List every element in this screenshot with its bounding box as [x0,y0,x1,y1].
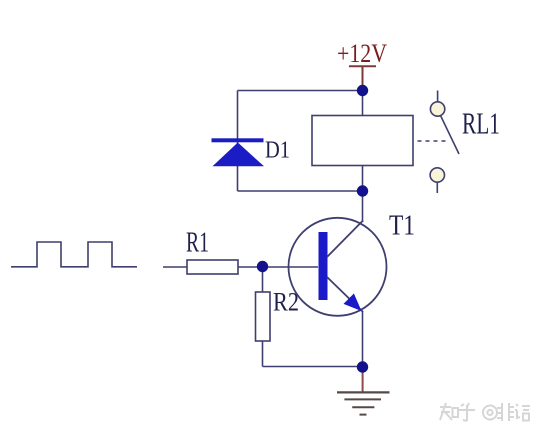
svg-text:R1: R1 [186,228,209,259]
relay contact stub bottom [436,182,438,193]
wire emitter vertical [362,311,364,367]
wire base node down to R2 [262,270,264,292]
input square-wave signal [11,242,137,267]
wire left vertical diode branch [237,91,239,192]
watermark [440,403,530,421]
wire collector vertical [362,191,364,222]
relay contact stub top [437,91,439,103]
diode D1 [212,138,265,166]
relay contact terminal top [430,102,444,116]
wire base node to transistor [263,266,318,268]
svg-text:T1: T1 [389,211,415,242]
node supply junction [357,85,368,96]
wire emitter node to ground [362,370,364,392]
resistor R1 [187,260,238,274]
wire supply node to relay top [362,91,364,116]
svg-text:+12V: +12V [337,39,387,68]
wire power rail to supply node [362,66,364,85]
transistor T1 [289,218,387,316]
svg-text:D1: D1 [265,138,290,164]
svg-text:RL1: RL1 [462,106,500,141]
resistor R2 [256,292,271,341]
wire bottom horizontal diode branch [238,190,363,192]
wire relay bottom to collector node [362,166,364,192]
wire R1 to base node [238,266,263,268]
node base junction [257,261,268,272]
power rail bar [349,65,376,67]
wire top horizontal [238,90,363,92]
wire bottom horizontal to emitter node [263,366,363,368]
node emitter junction [357,361,368,372]
wire input to R1 [163,266,187,268]
relay contact terminal bottom [430,168,444,182]
relay coil RL1 [312,116,413,166]
node collector junction [357,185,368,196]
wire R2 bottom down [262,341,264,367]
relay switch blade [441,116,460,155]
ground [337,392,390,414]
relay actuation dashed link [418,140,448,142]
